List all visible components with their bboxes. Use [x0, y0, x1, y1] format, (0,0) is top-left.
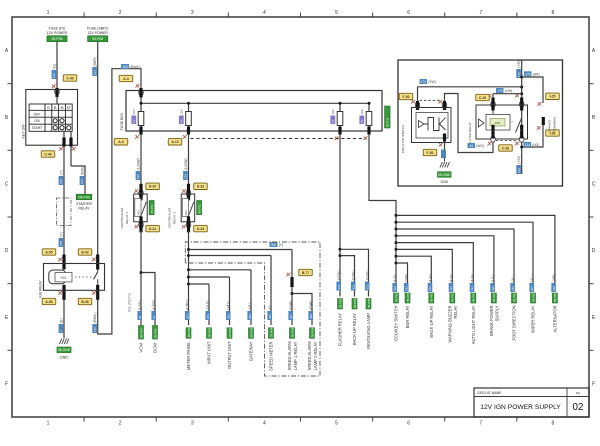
- svg-text:BACK UP RELAY: BACK UP RELAY: [429, 305, 434, 337]
- svg-text:(Y): (Y): [59, 232, 63, 236]
- svg-text:05-P06: 05-P06: [338, 298, 342, 308]
- svg-text:305: 305: [248, 314, 252, 319]
- svg-text:05-P04: 05-P04: [269, 327, 273, 337]
- svg-text:LAMP 2 RELAY: LAMP 2 RELAY: [313, 341, 318, 370]
- svg-text:308: 308: [309, 314, 313, 319]
- svg-text:05-P07: 05-P07: [406, 292, 410, 302]
- svg-text:GATEWAY: GATEWAY: [249, 341, 254, 361]
- svg-text:ECU/KEY SWITCH: ECU/KEY SWITCH: [394, 305, 399, 340]
- svg-text:R05: R05: [495, 121, 501, 125]
- svg-text:GND: GND: [441, 180, 449, 184]
- svg-text:(L2BY): (L2BY): [186, 300, 190, 310]
- svg-text:RELAY: RELAY: [453, 305, 458, 318]
- svg-text:05-P06: 05-P06: [353, 298, 357, 308]
- svg-text:RELAY: RELAY: [78, 206, 90, 210]
- svg-text:B-77: B-77: [302, 271, 309, 275]
- svg-text:303: 303: [206, 314, 210, 319]
- svg-text:(YW): (YW): [505, 89, 513, 93]
- svg-text:ON: ON: [34, 119, 40, 123]
- svg-text:05-P07: 05-P07: [492, 292, 496, 302]
- svg-text:10A: 10A: [331, 109, 335, 114]
- svg-text:BACK UP RELAY: BACK UP RELAY: [352, 313, 357, 345]
- svg-text:05-P07: 05-P07: [472, 292, 476, 302]
- svg-text:(Y/G): (Y/G): [517, 156, 521, 164]
- svg-text:C-26: C-26: [502, 146, 509, 150]
- svg-text:C: C: [592, 181, 596, 187]
- svg-text:175: 175: [517, 72, 521, 77]
- svg-text:LAMP 1 RELAY: LAMP 1 RELAY: [293, 341, 298, 370]
- svg-text:(HG): (HG): [532, 143, 539, 147]
- svg-text:FUSE BOX: FUSE BOX: [120, 112, 124, 130]
- svg-text:12V IGN POWER SUPPLY: 12V IGN POWER SUPPLY: [480, 404, 561, 411]
- svg-text:10A: 10A: [180, 109, 184, 114]
- svg-text:(Y): (Y): [279, 243, 283, 247]
- svg-text:B-26: B-26: [81, 300, 88, 304]
- svg-text:05-P04: 05-P04: [249, 327, 253, 337]
- svg-text:ALTERNATOR: ALTERNATOR: [553, 305, 558, 332]
- svg-text:A-56: A-56: [45, 300, 52, 304]
- svg-text:(Y/R): (Y/R): [405, 274, 409, 282]
- svg-text:GND: GND: [60, 356, 68, 360]
- svg-text:05-P04: 05-P04: [228, 327, 232, 337]
- svg-text:(HR): (HR): [533, 73, 540, 77]
- svg-text:05-P02: 05-P02: [153, 328, 157, 338]
- svg-text:SPEED ALARM: SPEED ALARM: [307, 341, 312, 370]
- svg-text:(G): (G): [52, 64, 56, 69]
- svg-text:TERMINAL: TERMINAL: [553, 116, 557, 132]
- svg-text:05-P04: 05-P04: [290, 327, 294, 337]
- svg-text:327: 327: [530, 286, 534, 291]
- svg-text:A-13: A-13: [171, 140, 178, 144]
- svg-text:6: 6: [407, 10, 410, 16]
- svg-text:05-P04: 05-P04: [207, 327, 211, 337]
- svg-text:195: 195: [136, 174, 140, 179]
- svg-text:(BW/L): (BW/L): [130, 65, 140, 69]
- svg-text:(Y): (Y): [511, 277, 515, 281]
- svg-text:7: 7: [479, 10, 482, 16]
- svg-text:05-P11: 05-P11: [150, 204, 154, 214]
- svg-text:(G/W): (G/W): [289, 301, 293, 310]
- svg-text:CONTROLLER: CONTROLLER: [120, 207, 124, 228]
- svg-text:05-P05: 05-P05: [52, 37, 63, 41]
- svg-text:OUTPUT UNIT: OUTPUT UNIT: [227, 341, 232, 369]
- svg-text:176: 176: [525, 72, 531, 76]
- svg-text:DCM: DCM: [153, 343, 158, 353]
- svg-text:R02: R02: [184, 210, 188, 216]
- svg-text:WARNING BUZZER: WARNING BUZZER: [447, 305, 452, 342]
- svg-text:A-3: A-3: [123, 77, 129, 81]
- svg-text:307: 307: [289, 314, 293, 319]
- svg-text:D-21: D-21: [149, 227, 156, 231]
- svg-text:SUPPLY: SUPPLY: [495, 305, 500, 321]
- svg-text:1: 1: [47, 10, 50, 16]
- svg-text:(Y): (Y): [530, 277, 534, 281]
- svg-text:(L/G): (L/G): [429, 274, 433, 282]
- svg-text:09: 09: [138, 315, 142, 319]
- svg-text:12V POWER: 12V POWER: [87, 31, 108, 35]
- svg-text:F-50: F-50: [403, 95, 410, 99]
- svg-text:(L/Y): (L/Y): [393, 275, 397, 282]
- svg-text:7: 7: [479, 421, 482, 427]
- svg-text:150: 150: [59, 241, 63, 246]
- svg-text:ST: ST: [67, 106, 71, 110]
- svg-text:(B): (B): [59, 318, 63, 322]
- svg-text:F3: F3: [331, 119, 335, 123]
- svg-text:R01: R01: [61, 276, 67, 280]
- svg-text:CONTROLLER: CONTROLLER: [168, 207, 172, 228]
- svg-text:05-P04: 05-P04: [310, 327, 314, 337]
- svg-text:5: 5: [335, 10, 338, 16]
- svg-text:(Y/L): (Y/L): [248, 303, 252, 310]
- svg-text:05-P06: 05-P06: [367, 298, 371, 308]
- svg-text:METER PANEL: METER PANEL: [186, 341, 191, 370]
- svg-text:134: 134: [525, 143, 531, 147]
- svg-text:C-40: C-40: [44, 152, 51, 156]
- svg-text:05-P07: 05-P07: [531, 292, 535, 302]
- svg-text:D-20: D-20: [149, 185, 156, 189]
- svg-text:F3: F3: [180, 119, 184, 123]
- svg-text:3: 3: [191, 10, 194, 16]
- svg-text:05-P06: 05-P06: [92, 37, 103, 41]
- svg-text:FLASHER RELAY: FLASHER RELAY: [338, 313, 343, 346]
- svg-text:VCM: VCM: [139, 343, 144, 353]
- svg-text:FUSE (SBF2): FUSE (SBF2): [87, 27, 108, 31]
- svg-text:05-P07: 05-P07: [553, 292, 557, 302]
- svg-text:(WG): (WG): [476, 144, 484, 148]
- svg-text:F: F: [592, 381, 595, 387]
- svg-text:(L2SL): (L2SL): [366, 270, 370, 280]
- svg-text:150: 150: [52, 73, 56, 78]
- svg-text:(L/Y): (L/Y): [450, 275, 454, 282]
- svg-text:311: 311: [351, 284, 355, 289]
- svg-text:AUTO LIGHT RELAY: AUTO LIGHT RELAY: [471, 305, 476, 344]
- svg-text:SPEED ALARM: SPEED ALARM: [287, 341, 292, 370]
- svg-text:FOOT DIRECTION: FOOT DIRECTION: [512, 305, 517, 340]
- svg-text:RELAY 2: RELAY 2: [173, 212, 177, 224]
- svg-text:(Y): (Y): [268, 305, 272, 309]
- svg-text:2: 2: [119, 10, 122, 16]
- svg-text:326: 326: [511, 286, 515, 291]
- svg-text:05-P07: 05-P07: [430, 292, 434, 302]
- svg-text:STARTER: STARTER: [76, 202, 92, 206]
- svg-text:324: 324: [470, 286, 474, 291]
- svg-text:155: 155: [122, 65, 128, 69]
- svg-text:D-32: D-32: [197, 185, 204, 189]
- svg-text:152: 152: [80, 179, 84, 184]
- svg-text:(YW): (YW): [428, 80, 436, 84]
- svg-text:(BW/L): (BW/L): [93, 313, 97, 323]
- svg-text:(Y/R): (Y/R): [552, 274, 556, 282]
- svg-text:12V POWER: 12V POWER: [47, 31, 68, 35]
- svg-text:1: 1: [47, 421, 50, 427]
- svg-text:05-P04: 05-P04: [187, 327, 191, 337]
- svg-text:BYPASS: BYPASS: [548, 120, 552, 132]
- svg-text:RELAY 1: RELAY 1: [125, 212, 129, 224]
- svg-text:(L2SL): (L2SL): [352, 270, 356, 280]
- svg-text:F-50: F-50: [427, 151, 434, 155]
- svg-text:3: 3: [191, 421, 194, 427]
- svg-text:F3: F3: [132, 119, 136, 123]
- svg-text:(L2GW): (L2GW): [136, 158, 140, 170]
- svg-text:(G/W): (G/W): [309, 301, 313, 310]
- svg-text:D: D: [592, 248, 596, 254]
- svg-text:05-P11: 05-P11: [386, 117, 390, 127]
- svg-text:(L/L): (L/L): [491, 275, 495, 282]
- svg-text:322: 322: [428, 286, 432, 291]
- svg-text:155: 155: [93, 327, 97, 332]
- svg-text:150: 150: [59, 179, 63, 184]
- svg-text:301: 301: [185, 314, 189, 319]
- svg-text:05-P07: 05-P07: [451, 292, 455, 302]
- svg-text:328: 328: [552, 286, 556, 291]
- svg-text:172: 172: [421, 80, 427, 84]
- svg-text:(R/B): (R/B): [80, 167, 84, 175]
- svg-text:REVOLVING LAMP: REVOLVING LAMP: [366, 313, 371, 349]
- svg-text:KEY SW: KEY SW: [21, 124, 25, 139]
- svg-text:GSL (W/LTH): GSL (W/LTH): [128, 293, 132, 312]
- svg-text:10A: 10A: [132, 109, 136, 114]
- svg-text:151: 151: [93, 70, 97, 75]
- svg-text:SPEED METER: SPEED METER: [269, 341, 274, 370]
- svg-text:173: 173: [497, 89, 503, 93]
- svg-text:05-P07: 05-P07: [512, 292, 516, 302]
- svg-text:(Y): (Y): [59, 170, 63, 174]
- svg-text:8: 8: [552, 421, 555, 427]
- svg-text:05-P07: 05-P07: [394, 292, 398, 302]
- svg-text:(Y/R): (Y/R): [517, 60, 521, 68]
- svg-text:A-55: A-55: [45, 250, 52, 254]
- svg-text:(L2SL): (L2SL): [138, 300, 142, 310]
- svg-text:G: G: [47, 106, 50, 110]
- svg-text:10: 10: [152, 315, 156, 319]
- svg-text:(L/G): (L/G): [471, 274, 475, 282]
- svg-text:C: C: [5, 181, 9, 187]
- svg-text:05-GND: 05-GND: [438, 173, 451, 177]
- svg-text:F3: F3: [360, 119, 364, 123]
- svg-text:(Y/LL): (Y/LL): [227, 301, 231, 310]
- svg-text:IGN RELAY: IGN RELAY: [39, 280, 43, 298]
- svg-text:05-P09: 05-P09: [79, 195, 90, 199]
- svg-text:SH: SH: [576, 391, 580, 395]
- svg-text:F: F: [5, 381, 8, 387]
- svg-text:321: 321: [404, 286, 408, 291]
- svg-text:306: 306: [268, 314, 272, 319]
- svg-text:320: 320: [393, 286, 397, 291]
- svg-text:310: 310: [337, 284, 341, 289]
- svg-text:05-GND: 05-GND: [58, 348, 71, 352]
- svg-text:323: 323: [449, 286, 453, 291]
- svg-text:C-26: C-26: [479, 96, 486, 100]
- svg-text:(L2GW): (L2GW): [184, 158, 188, 170]
- svg-text:D: D: [5, 248, 9, 254]
- svg-text:6: 6: [407, 421, 410, 427]
- svg-text:05-P04: 05-P04: [139, 328, 143, 338]
- svg-text:4: 4: [263, 10, 266, 16]
- svg-text:10A: 10A: [360, 109, 364, 114]
- svg-text:(W/R): (W/R): [93, 57, 97, 66]
- svg-text:8: 8: [552, 10, 555, 16]
- svg-text:44: 44: [469, 144, 473, 148]
- svg-text:FUSE (F2): FUSE (F2): [49, 27, 66, 31]
- svg-text:INPUT UNIT: INPUT UNIT: [207, 341, 212, 364]
- svg-text:ENG STOP SWITCH: ENG STOP SWITCH: [401, 125, 405, 153]
- svg-text:02: 02: [573, 402, 584, 413]
- svg-text:304: 304: [226, 314, 230, 319]
- svg-text:302: 302: [271, 243, 277, 247]
- svg-text:B&R RELAY: B&R RELAY: [405, 305, 410, 328]
- svg-text:A-3: A-3: [118, 140, 124, 144]
- svg-text:(Y/LB): (Y/LB): [206, 300, 210, 309]
- svg-text:D-33: D-33: [197, 227, 204, 231]
- svg-text:05-P11: 05-P11: [197, 204, 201, 214]
- svg-text:2: 2: [119, 421, 122, 427]
- svg-text:R02: R02: [136, 210, 140, 216]
- svg-text:195: 195: [184, 174, 188, 179]
- svg-text:BRAKE POWER: BRAKE POWER: [489, 305, 494, 336]
- svg-text:(L2SL): (L2SL): [337, 270, 341, 280]
- svg-text:325: 325: [491, 286, 495, 291]
- svg-text:START: START: [32, 126, 43, 130]
- svg-text:(L2SS): (L2SS): [152, 300, 156, 310]
- svg-text:5: 5: [335, 421, 338, 427]
- svg-text:M: M: [61, 106, 64, 110]
- svg-text:I-25: I-25: [550, 95, 556, 99]
- svg-text:136: 136: [517, 168, 521, 173]
- svg-text:4: 4: [263, 421, 266, 427]
- svg-text:WIPER RELAY: WIPER RELAY: [531, 305, 536, 333]
- svg-text:CIRCUIT NAME: CIRCUIT NAME: [477, 391, 502, 395]
- svg-text:C-40: C-40: [66, 76, 73, 80]
- svg-text:312: 312: [365, 284, 369, 289]
- svg-text:OFF: OFF: [34, 112, 41, 116]
- svg-text:B-43: B-43: [81, 250, 88, 254]
